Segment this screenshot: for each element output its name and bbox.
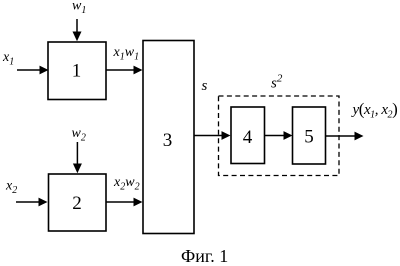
block U2	[49, 174, 107, 231]
wire w2 input	[76, 142, 78, 165]
arrowhead 4 to 5	[284, 131, 293, 140]
block U3	[143, 41, 194, 234]
arrowhead s	[222, 131, 231, 140]
svg-text:x2: x2	[5, 179, 17, 197]
wire x2 input	[16, 201, 40, 203]
dashed box s2	[219, 96, 340, 176]
wire x1w1	[106, 69, 135, 71]
svg-text:x2w2: x2w2	[113, 175, 140, 193]
arrowhead w1 input	[73, 32, 82, 42]
svg-text:Фиг. 1: Фиг. 1	[181, 246, 228, 266]
arrowhead x1 input	[40, 66, 49, 75]
wire w1 input	[76, 19, 78, 33]
wire s	[194, 135, 223, 137]
arrowhead x2 input	[39, 198, 48, 207]
wire x1 input	[17, 69, 41, 71]
wire 4 to 5	[265, 135, 285, 137]
block U1	[48, 42, 106, 100]
svg-text:w2: w2	[72, 126, 86, 144]
arrowhead output y	[355, 132, 364, 141]
svg-text:w1: w1	[72, 0, 86, 16]
svg-text:y(x1, x2): y(x1, x2)	[351, 100, 398, 121]
arrowhead x1w1	[134, 66, 143, 75]
svg-text:s: s	[202, 78, 208, 94]
wire x2w2	[106, 201, 135, 203]
svg-text:1: 1	[72, 61, 82, 82]
wire output y	[326, 135, 356, 137]
svg-text:s2: s2	[271, 73, 283, 92]
svg-text:x1w1: x1w1	[113, 45, 140, 63]
svg-text:3: 3	[163, 130, 173, 151]
block U5	[293, 107, 326, 164]
svg-text:5: 5	[304, 127, 314, 148]
arrowhead x2w2	[134, 198, 143, 207]
block U4	[231, 107, 265, 164]
svg-text:4: 4	[243, 127, 253, 148]
arrowhead w2 input	[73, 164, 82, 174]
svg-text:2: 2	[72, 193, 82, 214]
svg-text:x1: x1	[2, 50, 14, 68]
